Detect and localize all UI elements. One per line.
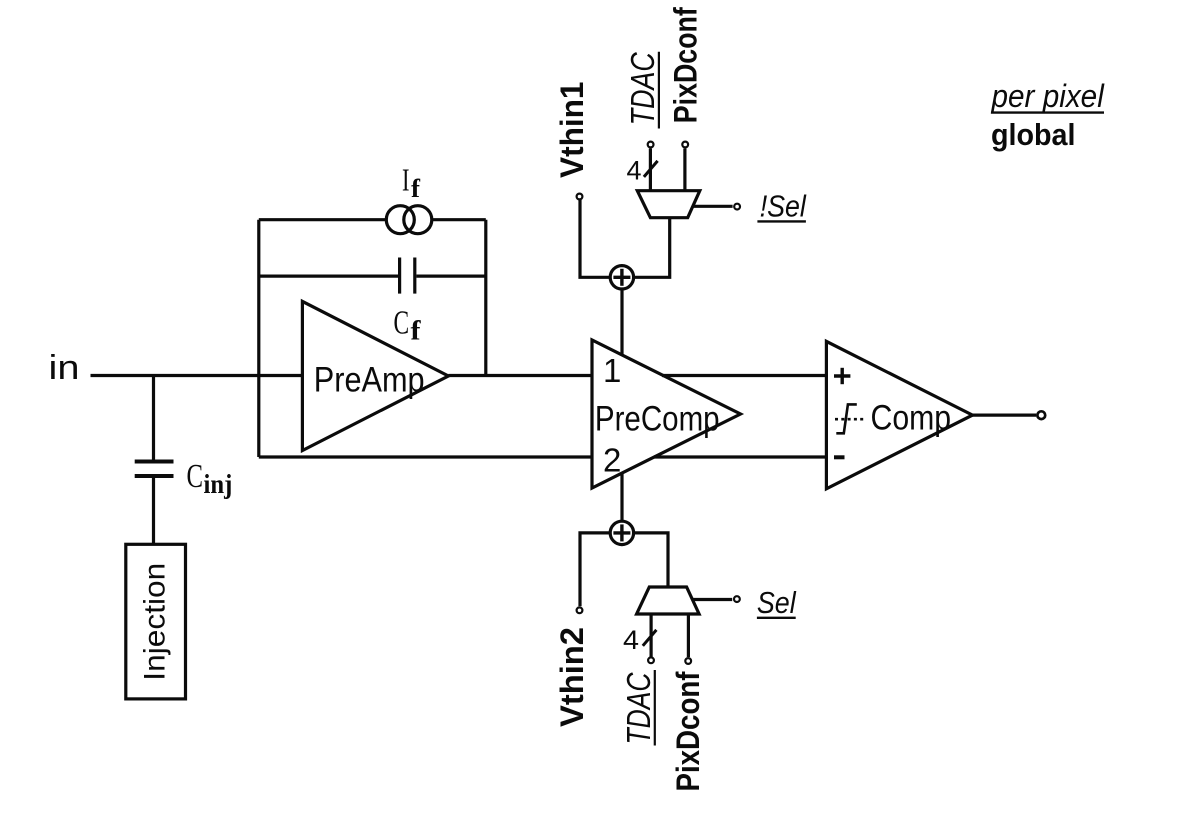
op-amp PreComp (592, 340, 741, 488)
wire C_inj drop from input node (152, 376, 155, 461)
terminal Sel (734, 596, 740, 602)
bus slash 4 (bottom) (643, 630, 657, 646)
wire Comp output (973, 414, 1037, 417)
wire mux2 to PixDconf2 terminal (687, 614, 690, 657)
svg-text:4: 4 (623, 625, 639, 655)
label I_f (402, 162, 420, 204)
svg-text:f: f (411, 316, 422, 346)
svg-text:Vthin2: Vthin2 (554, 627, 590, 727)
wire PreAmp output to PreComp input 1 (448, 374, 592, 377)
terminal PixDconf1 (682, 142, 688, 148)
summing node sum2 (610, 521, 633, 544)
Comp minus input sign (834, 455, 845, 459)
svg-text:Comp: Comp (871, 399, 952, 438)
wire TDAC1 to mux1 (649, 149, 652, 191)
wire bottom rail to PreComp input 2 (259, 455, 592, 458)
wire feedback top rail right (432, 218, 486, 221)
Comp plus input sign (834, 368, 850, 384)
wire Sel (692, 598, 732, 601)
summing node sum1 (610, 266, 633, 289)
terminal Vthin1 (577, 194, 583, 200)
wire mux2 to TDAC2 terminal (649, 614, 652, 657)
svg-text:2: 2 (603, 442, 621, 479)
terminal Vthin2 (577, 607, 583, 613)
svg-text:PixDconf: PixDconf (668, 7, 704, 123)
wire sum1 to PreComp top edge (620, 290, 623, 356)
label C_f (394, 305, 422, 346)
svg-text:C: C (394, 305, 410, 342)
bus slash 4 (top) (644, 161, 658, 177)
mux MUX1 (637, 191, 700, 218)
svg-text:1: 1 (603, 352, 621, 389)
svg-text:TDAC: TDAC (624, 51, 661, 125)
terminal output circle (1037, 411, 1045, 419)
wire feedback top rail left (259, 218, 387, 221)
Comp hysteresis glyph (835, 404, 864, 433)
wire !Sel (693, 205, 733, 208)
svg-text:global: global (991, 117, 1076, 152)
wire input horizontal (91, 374, 303, 377)
comparator Comp (826, 341, 972, 488)
svg-text:I: I (402, 162, 410, 198)
svg-text:PixDconf: PixDconf (670, 671, 706, 791)
svg-text:in: in (49, 349, 80, 387)
wire sum2 to PreComp bottom edge (620, 473, 623, 521)
svg-text:C: C (187, 458, 204, 495)
svg-text:Sel: Sel (757, 585, 797, 620)
svg-text:inj: inj (204, 469, 233, 499)
svg-text:Injection: Injection (139, 563, 172, 681)
wire mux1 output to sum1 (634, 218, 669, 278)
wire C_f rail left (259, 275, 398, 278)
wire Vthin2 to sum2 (580, 533, 609, 606)
wire Vthin1 to sum1 (580, 200, 609, 277)
wire C_inj to Injection box (152, 478, 155, 545)
wire PreComp out1 to Comp plus (662, 374, 826, 377)
op-amp PreAmp (302, 301, 448, 450)
terminal !Sel (734, 204, 740, 210)
svg-text:Vthin1: Vthin1 (554, 82, 590, 179)
capacitor C_f (400, 258, 415, 294)
terminal PixDconf2 (685, 658, 691, 664)
label C_inj (187, 458, 233, 499)
svg-text:f: f (411, 174, 420, 203)
svg-text:per pixel: per pixel (991, 78, 1105, 114)
capacitor C_inj (135, 462, 174, 477)
svg-text:PreComp: PreComp (595, 400, 720, 439)
wire sum2 to mux2 (634, 533, 668, 587)
wire feedback left vertical (257, 220, 260, 457)
Injection box (126, 544, 186, 699)
current source I_f (two circles) (386, 206, 414, 234)
wire PreComp out2 to Comp minus (654, 455, 826, 458)
svg-text:PreAmp: PreAmp (314, 361, 425, 400)
wire feedback right vertical (484, 220, 487, 376)
svg-text:!Sel: !Sel (760, 189, 807, 224)
mux MUX2 (637, 587, 700, 614)
wire PixDconf1 to mux1 (683, 149, 686, 191)
svg-text:4: 4 (627, 156, 642, 186)
wire C_f rail right (416, 275, 485, 278)
svg-text:TDAC: TDAC (620, 672, 657, 745)
terminal TDAC1 (648, 142, 654, 148)
terminal TDAC2 (648, 657, 654, 663)
